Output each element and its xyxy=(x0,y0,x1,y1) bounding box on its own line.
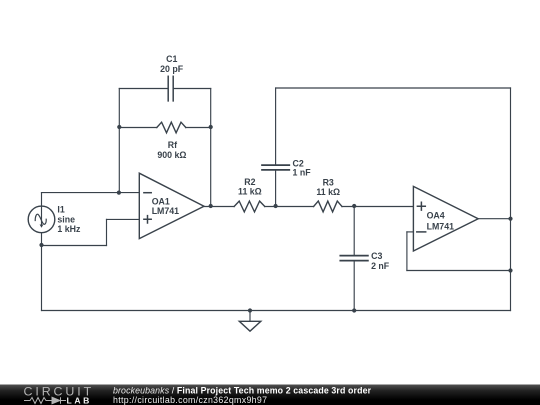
svg-text:C1: C1 xyxy=(166,54,177,64)
node OA4 feedback xyxy=(508,268,512,272)
svg-text:LM741: LM741 xyxy=(152,206,179,216)
CircuitLab logo diode xyxy=(52,397,61,404)
svg-text:I1: I1 xyxy=(57,204,64,214)
op-amp OA1 xyxy=(139,173,204,238)
wire C2 node up xyxy=(275,170,277,207)
wire plus input vertical xyxy=(106,219,108,245)
OA4 minus symbol xyxy=(417,231,426,233)
node OA1 output xyxy=(209,204,213,208)
node OA4 output xyxy=(508,217,512,221)
node ground xyxy=(248,308,252,312)
wire OA4 feedback bottom xyxy=(407,270,511,272)
wire C2 top vertical xyxy=(275,88,277,165)
I1 sine squiggle xyxy=(35,214,46,224)
wire top right horizontal xyxy=(276,87,511,89)
resistor Rf xyxy=(157,122,186,133)
svg-text:C3: C3 xyxy=(371,251,382,261)
wire I1 top to opamp minus input xyxy=(42,192,140,194)
svg-text:LAB: LAB xyxy=(67,395,92,405)
current source I1 xyxy=(28,206,55,233)
node C2 junction xyxy=(274,204,278,208)
wire OA4 feedback stub xyxy=(407,231,414,233)
wire feedback loop right vertical xyxy=(210,89,212,207)
svg-text:900 kΩ: 900 kΩ xyxy=(157,150,186,160)
wire feedback top right segment xyxy=(174,88,211,90)
wire Rf row right lead xyxy=(186,127,211,129)
footer bar xyxy=(0,385,540,405)
svg-text:OA1: OA1 xyxy=(152,196,170,206)
wire OA4 output xyxy=(478,218,510,220)
wire C3 node down xyxy=(353,207,355,256)
OA1 minus symbol xyxy=(144,192,151,194)
wire feedback top left segment xyxy=(119,88,167,90)
capacitor C2 xyxy=(262,165,289,170)
wire feedback loop top-left vertical xyxy=(118,89,120,193)
wire Rf row left lead xyxy=(119,127,157,129)
node Rf left xyxy=(117,125,121,129)
node C3 ground xyxy=(352,308,356,312)
wire C3 bottom vertical xyxy=(353,261,355,311)
resistor R2 xyxy=(234,201,265,212)
svg-text:1 nF: 1 nF xyxy=(293,168,312,178)
wire right vertical xyxy=(510,88,512,311)
ground stem xyxy=(249,311,251,322)
svg-text:1 kHz: 1 kHz xyxy=(57,224,81,234)
wire OA1 output xyxy=(204,206,234,208)
wire R3 to OA4 plus input xyxy=(342,206,413,208)
capacitor C3 xyxy=(340,256,368,261)
capacitor C1 xyxy=(168,76,173,101)
ground xyxy=(239,321,260,331)
resistor R3 xyxy=(314,201,342,212)
wire OA4 feedback vertical xyxy=(406,232,408,271)
svg-text:2 nF: 2 nF xyxy=(371,261,390,271)
I1 arrowhead xyxy=(40,225,44,228)
node C3 junction xyxy=(352,204,356,208)
svg-text:20 pF: 20 pF xyxy=(160,64,184,74)
wire plus input horizontal lower xyxy=(42,245,107,247)
svg-text:Rf: Rf xyxy=(168,140,177,150)
node minus input xyxy=(117,191,121,195)
wire I1 top vertical xyxy=(41,193,43,207)
op-amp OA4 xyxy=(413,186,478,251)
svg-text:brockeubanks / Final Project T: brockeubanks / Final Project Tech memo 2… xyxy=(113,385,372,395)
svg-text:11 kΩ: 11 kΩ xyxy=(316,187,340,197)
I1 arrow line xyxy=(41,206,43,225)
svg-text:LM741: LM741 xyxy=(427,221,454,231)
OA1 plus symbol xyxy=(144,216,151,223)
node Rf right xyxy=(209,125,213,129)
svg-text:11 kΩ: 11 kΩ xyxy=(238,186,262,196)
wire bottom rail xyxy=(42,310,511,312)
svg-text:OA4: OA4 xyxy=(427,211,445,221)
wire plus input horizontal upper xyxy=(107,218,140,220)
node I1 bottom xyxy=(39,243,43,247)
wire R2 to C2 node xyxy=(265,206,314,208)
OA4 plus symbol xyxy=(417,202,425,210)
CircuitLab logo resistor squiggle xyxy=(24,398,66,404)
svg-text:http://circuitlab.com/czn362qm: http://circuitlab.com/czn362qmx9h97 xyxy=(113,395,267,405)
wire I1 bottom vertical xyxy=(41,233,43,311)
